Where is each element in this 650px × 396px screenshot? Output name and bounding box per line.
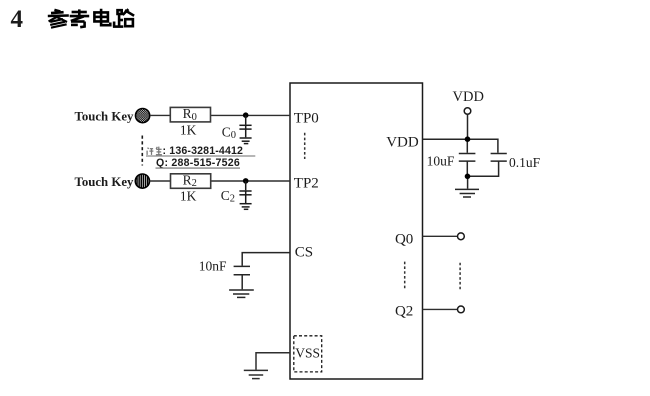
- svg-text:0.1uF: 0.1uF: [509, 155, 541, 170]
- svg-text:VDD: VDD: [453, 89, 484, 105]
- svg-text:Q: 288-515-7526: Q: 288-515-7526: [156, 157, 240, 169]
- svg-text:4: 4: [11, 6, 24, 33]
- svg-text:1K: 1K: [180, 188, 197, 203]
- svg-text:TP2: TP2: [294, 175, 319, 191]
- svg-text:: 136-3281-4412: : 136-3281-4412: [163, 145, 244, 157]
- svg-text:VSS: VSS: [295, 346, 320, 361]
- svg-text:CS: CS: [295, 245, 313, 261]
- svg-text:Q0: Q0: [395, 231, 413, 247]
- svg-text:Touch Key: Touch Key: [75, 175, 135, 189]
- svg-text:1K: 1K: [180, 123, 197, 138]
- svg-text:10nF: 10nF: [199, 259, 227, 274]
- svg-text:10uF: 10uF: [427, 154, 455, 169]
- svg-text:C0: C0: [222, 124, 236, 141]
- svg-text:Touch Key: Touch Key: [75, 109, 135, 123]
- svg-text:C2: C2: [221, 188, 235, 205]
- svg-text:Q2: Q2: [395, 304, 413, 320]
- svg-text:TP0: TP0: [294, 111, 319, 127]
- svg-text:VDD: VDD: [386, 135, 419, 151]
